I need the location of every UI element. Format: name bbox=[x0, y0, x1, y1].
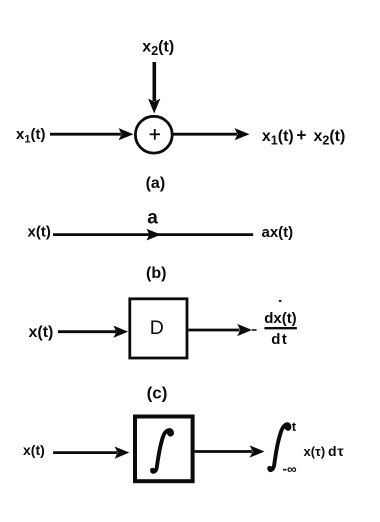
svg-text:x(t): x(t) bbox=[29, 324, 54, 341]
wire out of integrator bbox=[195, 445, 265, 457]
integral sign in box bbox=[151, 430, 174, 472]
svg-text:ax(t): ax(t) bbox=[262, 224, 294, 241]
lower limit -infinity bbox=[283, 461, 297, 476]
speck above fraction bbox=[279, 300, 282, 302]
label dt denominator bbox=[271, 331, 288, 348]
svg-text:x(t): x(t) bbox=[28, 224, 51, 241]
wire row b with mid arrowhead bbox=[53, 229, 253, 241]
label d tau bbox=[328, 443, 344, 459]
wire into box D bbox=[58, 326, 128, 338]
svg-text:-∞: -∞ bbox=[283, 461, 297, 476]
svg-text:x2(t): x2(t) bbox=[142, 39, 174, 59]
svg-text:(a): (a) bbox=[146, 175, 166, 192]
label x(tau) bbox=[304, 444, 326, 459]
fraction bar bbox=[264, 327, 297, 329]
svg-text:dt: dt bbox=[271, 331, 288, 348]
svg-text:x1(t): x1(t) bbox=[16, 126, 45, 146]
svg-text:(b): (b) bbox=[146, 265, 166, 282]
label a gain bbox=[147, 208, 158, 229]
svg-text:(c): (c) bbox=[147, 383, 168, 402]
svg-text:D: D bbox=[150, 317, 164, 339]
wire adder output bbox=[174, 128, 250, 140]
label x1(t) input bbox=[16, 126, 45, 146]
upper limit t bbox=[292, 420, 297, 434]
svg-text:x(t): x(t) bbox=[23, 442, 45, 458]
wire into integrator box bbox=[53, 447, 129, 459]
svg-text:x(τ): x(τ) bbox=[304, 444, 326, 459]
label x2(t) bbox=[142, 39, 174, 59]
caption (c) bbox=[147, 383, 168, 402]
integral sign in formula bbox=[268, 424, 291, 470]
adder U1 circle bbox=[135, 116, 172, 153]
svg-text:dx(t): dx(t) bbox=[264, 310, 297, 327]
integrator box bbox=[135, 417, 193, 482]
caption (b) bbox=[146, 265, 166, 282]
label x1(t) + x2(t) output bbox=[262, 125, 345, 148]
differentiator box D bbox=[130, 299, 187, 358]
label x(t) row d bbox=[23, 442, 45, 458]
plus sign in adder bbox=[150, 129, 160, 140]
wire out of box D bbox=[188, 324, 256, 336]
svg-text:a: a bbox=[147, 208, 158, 229]
label dx(t) numerator bbox=[264, 310, 297, 327]
label x(t) row b bbox=[28, 224, 51, 241]
label ax(t) bbox=[262, 224, 294, 241]
label D bbox=[150, 317, 164, 339]
svg-text:dτ: dτ bbox=[328, 443, 344, 459]
caption (a) bbox=[146, 175, 166, 192]
label x(t) row c bbox=[29, 324, 54, 341]
wire x1 into adder bbox=[50, 128, 134, 140]
wire vertical into adder bbox=[148, 62, 160, 114]
